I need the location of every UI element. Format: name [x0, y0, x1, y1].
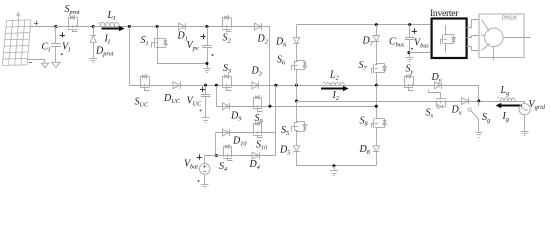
wire PV- to ground — [28, 60, 45, 64]
row 2 wire — [216, 132, 276, 134]
wire D_6 to S_6 — [296, 44, 298, 61]
label V_bus — [411, 28, 429, 49]
node rail B start — [295, 100, 298, 103]
wire S_3 node down — [217, 86, 223, 107]
wire x276 down — [275, 85, 277, 155]
PMSM box — [479, 14, 524, 58]
diode D_8 — [373, 146, 379, 152]
PV - terminal — [29, 62, 32, 64]
node V_UC — [204, 84, 207, 87]
wire V_grid bottom — [524, 115, 526, 132]
label D_UC — [163, 93, 181, 105]
ground (V_bat) — [201, 185, 209, 189]
node row C x376 — [375, 105, 378, 108]
PV array — [2, 13, 31, 66]
rail M1 — [129, 85, 479, 87]
diode D_x — [462, 98, 469, 105]
svg-text:Inverter: Inverter — [430, 8, 459, 19]
label L_I — [107, 10, 117, 22]
node rail A x276 — [274, 84, 277, 87]
label D_7 — [362, 36, 374, 48]
switch S_y — [404, 75, 414, 91]
node V_pv bottom — [206, 62, 209, 65]
PV + terminal — [34, 21, 38, 25]
wire S_7 to rail A — [376, 73, 378, 86]
ground (V_UC) — [202, 118, 210, 123]
node C_I — [54, 25, 57, 28]
wire row2 left down — [215, 133, 217, 156]
source V_bat — [199, 164, 210, 175]
label S_g — [482, 112, 490, 124]
wire T2 corner down — [296, 25, 298, 38]
switch S_x — [429, 90, 446, 109]
node V_bat row — [215, 154, 218, 157]
wire x376 rail A to S_8 — [376, 85, 378, 118]
label S_1 — [141, 35, 149, 47]
wire S_1 column — [157, 27, 159, 64]
node S_UC column — [128, 25, 131, 28]
node inverter neg — [407, 51, 410, 54]
wire C_I bottom — [55, 46, 57, 62]
inductor L_2 — [323, 82, 344, 86]
wires inverter to PMSM — [467, 20, 480, 51]
wire V_bat top — [204, 156, 206, 164]
rail B wire — [297, 101, 525, 103]
switch S_UC — [140, 75, 150, 91]
diode D_prot — [90, 36, 96, 43]
source V_grid — [519, 104, 530, 115]
wire S_g stub — [478, 101, 480, 106]
wire D_prot bottom — [93, 42, 95, 58]
diode D_9 — [223, 103, 230, 110]
wire D_5 to bottom rail — [296, 152, 298, 166]
label D_y — [431, 72, 442, 84]
label I_I — [104, 34, 111, 46]
diode D_y — [435, 82, 442, 89]
diode D_1 — [179, 23, 186, 30]
ground (C_I) — [52, 62, 61, 67]
label D_9 — [230, 111, 241, 123]
svg-text:PMSM: PMSM — [502, 15, 517, 22]
node C_bus top — [408, 23, 411, 26]
diode D_UC — [173, 82, 181, 89]
wire rail B corner to V_grid — [524, 101, 526, 104]
rail T1 segment D_prot to L_I — [93, 26, 131, 28]
label S_3 — [223, 63, 231, 75]
wire S_6 to rail A — [296, 70, 298, 86]
wire S_g bottom — [478, 119, 480, 132]
label D_6 — [275, 37, 287, 49]
capacitor V_UC — [201, 95, 211, 97]
label S_10 — [256, 140, 268, 152]
diode D_3 — [252, 82, 259, 89]
switch S_9 — [253, 96, 263, 112]
label I_g — [502, 111, 509, 123]
label S_y — [406, 64, 414, 76]
diode D_4 — [252, 152, 260, 159]
current arrow I_I — [102, 26, 125, 31]
node S_g junction — [477, 100, 480, 103]
wire D_7 to S_7 — [376, 42, 378, 64]
capacitor C_bus — [405, 38, 415, 40]
node row C x270 — [268, 105, 271, 108]
wire rail A corner down — [478, 85, 480, 101]
wire V_UC top — [205, 85, 207, 94]
ground (V_pv) — [203, 69, 211, 73]
switch S_1 — [152, 38, 168, 48]
label L_2 — [329, 69, 339, 81]
switch S_7 — [372, 64, 387, 74]
node S_1 column — [156, 25, 159, 28]
row 3 wire — [205, 155, 276, 157]
label D_x — [451, 105, 462, 117]
rail T2 — [297, 24, 432, 26]
wire V_pv bottom — [207, 48, 209, 69]
capacitor C_I — [51, 44, 61, 47]
wire rail B to S_5 — [296, 101, 298, 122]
wire S_8 to D_8 — [376, 127, 378, 146]
label C_bus — [389, 37, 405, 49]
label C_I — [42, 42, 52, 54]
label D_4 — [249, 159, 260, 171]
switch S_g blade — [468, 108, 479, 120]
diode D_6 — [293, 38, 299, 44]
rail T1 segment L_I to corner — [127, 26, 270, 28]
label Inverter — [430, 8, 459, 19]
label D_10 — [232, 136, 247, 148]
ground (bottom rail) — [330, 171, 338, 176]
node rail A x296 — [295, 84, 298, 87]
current arrow I_g — [496, 103, 522, 108]
label S_UC — [135, 97, 149, 109]
label S_6 — [277, 55, 286, 67]
label S_9 — [255, 113, 263, 125]
label D_2 — [257, 34, 268, 46]
inverter box — [432, 19, 467, 59]
switch S_4 — [223, 145, 233, 161]
label S_2 — [223, 33, 231, 45]
label D_prot — [95, 46, 114, 58]
inductor L_g — [498, 97, 516, 102]
capacitor V_pv — [202, 46, 212, 48]
inverter switch symbol — [441, 25, 456, 52]
ground (D_prot) — [89, 59, 97, 63]
diode D_5 — [293, 146, 299, 152]
label S_x — [426, 108, 434, 120]
wire bottom gnd stub — [334, 166, 336, 171]
label S_5 — [281, 125, 289, 137]
wire S_UC column — [129, 27, 131, 86]
switch S_5 — [292, 122, 307, 132]
label V_I — [60, 32, 71, 55]
PMSM motor symbol — [481, 20, 531, 61]
wire D_prot top — [93, 27, 95, 36]
wire V_UC bottom — [205, 97, 207, 118]
label V_pv — [187, 34, 214, 56]
row C wire — [216, 106, 376, 108]
label S_8 — [360, 116, 369, 128]
label V_bat — [184, 154, 202, 182]
bottom rail — [297, 165, 377, 167]
node row C end — [375, 105, 378, 108]
wire to inverter neg — [409, 52, 432, 54]
wire D_8 to bottom rail — [376, 152, 378, 166]
diode D_2 — [255, 23, 262, 30]
node rail A x376 — [375, 84, 378, 87]
label S_7 — [359, 60, 368, 72]
wire V_bat bottom — [204, 174, 206, 184]
wire C_bus top — [409, 25, 411, 38]
wire C_I top — [55, 27, 57, 44]
label S_prot — [65, 4, 80, 16]
label S_4 — [219, 161, 227, 173]
wire T2 to D_7 — [376, 25, 378, 36]
diode D_10 — [223, 129, 230, 136]
wire D_2 corner down — [269, 27, 271, 107]
wire PV+ to rail — [30, 26, 56, 28]
inductor L_I — [99, 22, 119, 26]
wire rail A to rail B x296 — [296, 85, 298, 101]
wire V_pv top — [207, 27, 209, 46]
node S_3 column — [215, 84, 218, 87]
node T2 D_7 — [375, 23, 378, 26]
label D_8 — [359, 144, 371, 156]
label PMSM — [502, 15, 517, 22]
switch S_prot — [68, 16, 78, 32]
label I_2 — [332, 90, 339, 102]
label V_grid — [529, 99, 546, 111]
switch S_8 — [372, 118, 387, 128]
node V_pv top — [206, 25, 209, 28]
switch S_3 — [222, 75, 232, 91]
wire S_5 to D_5 — [296, 131, 298, 146]
diode D_7 — [373, 36, 379, 42]
label V_UC — [187, 87, 206, 112]
switch S_10 — [253, 122, 263, 138]
ground (S_g) — [475, 133, 483, 138]
label L_g — [500, 85, 510, 97]
node bottom ground — [333, 164, 336, 167]
label D_3 — [251, 66, 262, 78]
wire S_1 bottom to V_pv — [157, 63, 207, 65]
node D_prot — [92, 25, 95, 28]
switch S_6 — [292, 61, 307, 71]
switch S_2 — [222, 16, 232, 32]
rail T1 segment C_I to D_prot — [56, 26, 93, 28]
current arrow I_2 — [321, 86, 349, 91]
wire C_bus bottom — [409, 40, 411, 58]
label D_1 — [177, 31, 188, 43]
ground (V_grid) — [521, 132, 529, 136]
label D_5 — [279, 145, 290, 157]
ground (PV) — [41, 63, 48, 67]
ground (V_bus) — [406, 58, 414, 62]
